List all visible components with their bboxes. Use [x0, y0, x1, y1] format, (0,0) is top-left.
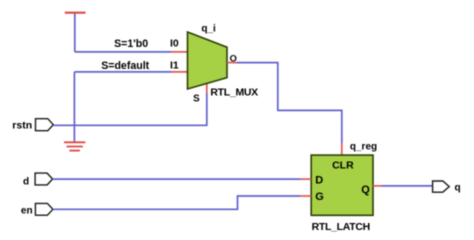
svg-text:Q: Q — [361, 184, 370, 196]
wire rstn to mux select — [53, 93, 207, 125]
svg-text:S=1'b0: S=1'b0 — [114, 38, 148, 50]
svg-text:S=default: S=default — [101, 60, 149, 72]
svg-text:q_i: q_i — [201, 23, 216, 34]
pin stub D — [300, 178, 311, 180]
pin stub I0 — [171, 51, 188, 53]
svg-text:rstn: rstn — [12, 120, 32, 132]
pin stub Q — [373, 185, 382, 187]
svg-text:RTL_LATCH: RTL_LATCH — [312, 221, 370, 233]
wire from VCC down to I0 net — [74, 14, 76, 52]
pin stub CLR — [341, 143, 343, 155]
wire vertical from I1 net down through rstn junction to ground — [73, 72, 75, 142]
svg-text:en: en — [21, 205, 33, 216]
svg-text:d: d — [23, 176, 29, 187]
svg-text:q: q — [455, 182, 461, 193]
svg-text:q_reg: q_reg — [350, 141, 377, 152]
port q — [433, 181, 450, 192]
pin stub I1 — [171, 71, 188, 73]
pin stub G — [300, 195, 311, 197]
wire d to latch D — [53, 178, 300, 180]
port d — [35, 173, 53, 185]
pin stub S — [206, 83, 208, 94]
svg-text:S: S — [193, 93, 200, 104]
svg-text:G: G — [315, 191, 324, 203]
port en — [35, 203, 53, 215]
wire en to latch G — [53, 196, 300, 209]
svg-text:I0: I0 — [170, 38, 179, 50]
wire net S=1'b0 to I0 — [75, 51, 171, 53]
power VCC symbol — [65, 12, 86, 14]
wire mux O to latch CLR — [237, 63, 342, 143]
wire net S=default to I1 — [74, 71, 171, 73]
mux q_i — [188, 32, 228, 89]
wire latch Q to port q — [382, 185, 433, 187]
svg-text:I1: I1 — [170, 60, 179, 72]
svg-text:D: D — [315, 174, 323, 186]
ground symbol — [64, 142, 85, 150]
svg-text:CLR: CLR — [332, 160, 354, 172]
pin stub O — [227, 62, 237, 64]
svg-text:RTL_MUX: RTL_MUX — [210, 87, 258, 99]
port rstn — [36, 119, 54, 131]
latch q_reg — [311, 155, 373, 215]
